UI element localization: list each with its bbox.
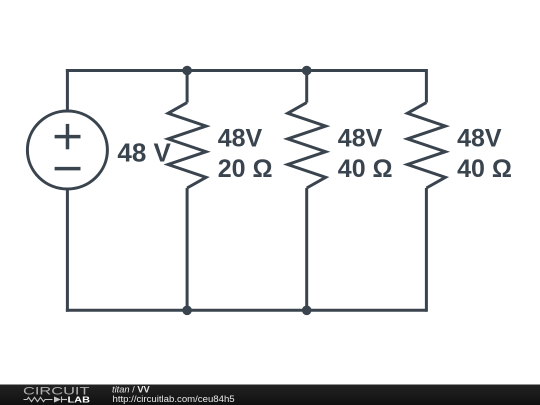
wire R1 bottom lead	[186, 188, 189, 310]
svg-text:http://circuitlab.com/ceu84h5: http://circuitlab.com/ceu84h5	[113, 394, 235, 405]
wire R3 top lead	[425, 69, 428, 103]
wire R2 top lead	[305, 71, 308, 103]
svg-text:48 V: 48 V	[117, 138, 171, 168]
svg-text:40 Ω: 40 Ω	[457, 155, 512, 183]
wire top rail	[66, 69, 427, 72]
resistor R2	[288, 103, 326, 188]
svg-text:LAB: LAB	[68, 395, 91, 405]
svg-text:48V: 48V	[457, 125, 502, 153]
resistor R1	[168, 103, 206, 188]
svg-text:40 Ω: 40 Ω	[338, 155, 393, 183]
CircuitLab logo diode triangle	[54, 396, 61, 402]
wire source top lead	[66, 69, 69, 112]
CircuitLab logo resistor-diode symbol	[24, 397, 68, 403]
svg-text:titan / VV: titan / VV	[112, 384, 151, 394]
node dot top R2	[302, 66, 312, 76]
svg-text:48V: 48V	[338, 125, 383, 153]
wire R1 top lead	[186, 71, 189, 103]
resistor R3	[407, 103, 445, 188]
node dot top R1	[182, 66, 192, 76]
wire R2 bottom lead	[305, 188, 308, 310]
node dot bottom R1	[182, 306, 192, 316]
wire source bottom lead	[66, 189, 69, 312]
wire R3 bottom lead	[425, 188, 428, 312]
svg-text:48V: 48V	[218, 125, 263, 153]
wire bottom rail	[66, 309, 427, 312]
node dot bottom R2	[302, 306, 312, 316]
voltage source V1	[27, 111, 107, 189]
svg-text:20 Ω: 20 Ω	[218, 155, 273, 183]
footer bar	[0, 385, 540, 405]
